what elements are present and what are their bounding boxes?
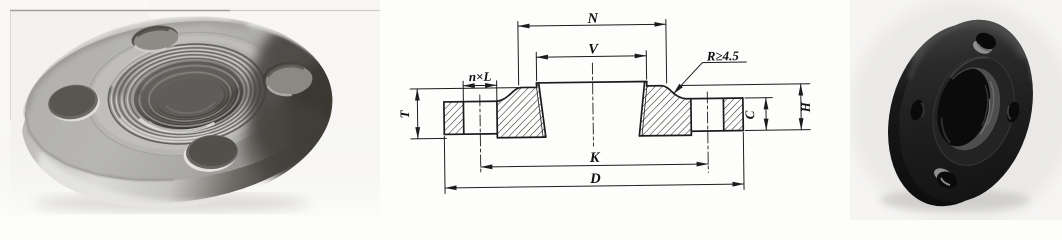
inner top dark: [133, 55, 241, 96]
photo background: [0, 0, 380, 220]
dimension H: [681, 84, 811, 132]
svg-text:C: C: [742, 110, 757, 119]
flange top face: [16, 5, 341, 196]
outer edge dark chamfer band upper-left: [25, 21, 247, 112]
thread band top shading: [105, 38, 263, 97]
thread zone: [103, 35, 271, 152]
outer edge top highlight: [909, 20, 1032, 81]
dimension T: [410, 88, 519, 139]
hub ring around bore: [921, 47, 1027, 175]
right edge: [742, 98, 744, 130]
ring inner-edge specular top-left: [108, 45, 178, 86]
bore wall right: [639, 82, 646, 136]
top face line: [444, 100, 497, 103]
bolt hole bottom: [932, 166, 960, 192]
bolt hole right: [1005, 100, 1022, 123]
svg-text:K: K: [589, 150, 601, 166]
dimension D: [444, 133, 744, 194]
flange side (thickness): [13, 27, 338, 219]
bore bottom-left gray: [936, 118, 956, 143]
inner bore: [130, 56, 247, 135]
flange rim side: [868, 8, 1042, 222]
thread thin lines: [536, 81, 648, 137]
svg-text:N: N: [586, 11, 598, 27]
dimension C: [745, 98, 773, 131]
bore interior dark (leaves right thread crescent): [929, 62, 999, 152]
hatch left rim: [444, 102, 464, 135]
shading overlays: [25, 15, 375, 185]
side bottom bright band: [30, 150, 250, 215]
centerlines: [479, 62, 708, 176]
svg-text:n×L: n×L: [469, 69, 492, 84]
ground shadow: [34, 194, 310, 212]
ground shadow: [880, 189, 1030, 211]
leader R>=4.5: [673, 62, 747, 94]
top rim broad light band: [912, 21, 1025, 60]
svg-text:T: T: [397, 109, 412, 118]
hole edges: [462, 102, 464, 134]
bolt hole top: [130, 22, 180, 54]
thread band bottom-left bright: [120, 108, 210, 147]
boss bottom: [497, 136, 545, 139]
right side dark shadow: [248, 15, 372, 185]
face-side separation edge: [25, 112, 174, 180]
photo top edge: [10, 10, 230, 12]
bore wall left: [539, 83, 546, 137]
hatch left mid: [497, 83, 546, 138]
bore bottom-left bright crescent: [140, 110, 216, 136]
svg-text:R≥4.5: R≥4.5: [706, 48, 740, 63]
bolt hole left: [909, 98, 926, 121]
top-right rim bright edge: [230, 21, 325, 65]
bolt hole bottom: [182, 133, 239, 173]
hub profile: [497, 81, 687, 101]
svg-text:D: D: [589, 171, 601, 187]
photo left edge: [10, 11, 12, 120]
dimension K: [481, 164, 708, 167]
bolt hole left: [45, 81, 102, 126]
dimension N: [518, 20, 667, 85]
backdrop vignette: [850, 0, 1062, 224]
svg-text:V: V: [588, 41, 599, 57]
top rim light edge: [80, 20, 280, 42]
bolt hole top: [971, 30, 999, 57]
raised gasket ring: [81, 22, 292, 166]
flange face: [879, 4, 1053, 218]
bore edge top highlight: [952, 63, 976, 85]
svg-text:H: H: [798, 101, 813, 113]
hatch right rim: [723, 98, 743, 131]
dimension V: [536, 51, 646, 81]
steps: [496, 134, 498, 138]
flange body: [13, 5, 341, 219]
bolt hole top-right (light interior against dark face): [261, 60, 314, 98]
left edge: [443, 102, 445, 134]
bore: [928, 60, 1009, 157]
hatch right mid: [639, 81, 692, 136]
dimension nxL: [463, 81, 497, 101]
rim bottoms: [444, 133, 497, 136]
bore bottom dark crescent: [214, 88, 240, 109]
